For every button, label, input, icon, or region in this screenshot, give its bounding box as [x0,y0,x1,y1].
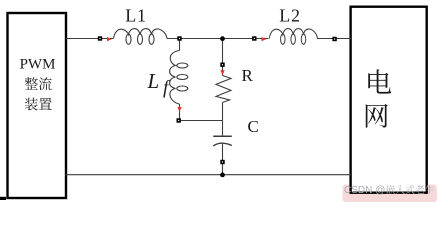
label 整流 [25,77,52,90]
inductor L2 [269,29,317,45]
inductor L1 [114,29,168,45]
wire C bottom [222,144,224,175]
svg-text:L1: L1 [125,6,147,26]
current arrow before L2 (right) [262,37,267,41]
capacitor C bottom plate [213,143,232,146]
node square L2 left [252,36,256,40]
svg-text:C: C [248,117,259,136]
node square C bottom [220,160,224,164]
svg-text:L2: L2 [279,6,301,26]
label 装置 [25,98,52,111]
current arrow R (down) [220,70,224,75]
wire R to C [222,102,224,135]
corner mark bottom-left [0,197,6,200]
wire Lf bottom to corner [179,104,181,121]
junction dot top RC tap [220,36,225,41]
node square L2 right [332,37,336,41]
node square PWM output [98,36,102,40]
wire top from PWM box to L1 [66,38,114,40]
grid box 电网 [351,7,427,193]
node square white centers [99,38,100,39]
junction dot bottom [220,173,225,178]
PWM converter box [8,13,67,198]
svg-text:R: R [242,66,254,85]
node square Lf tap [177,36,181,40]
wire bottom [66,174,351,176]
capacitor C top plate [213,135,232,137]
svg-text:PWM: PWM [20,57,56,73]
svg-text:L: L [147,69,160,93]
node square R top [220,63,224,67]
resistor R [216,76,231,103]
label 网 [366,104,388,128]
current arrow Lf (down) [177,107,181,112]
wire top middle L1 to L2 [167,38,269,40]
wire Lf vertical entry [179,39,181,51]
wire top right L2 to grid box [317,38,351,40]
label 电 [368,69,391,93]
wire Lf corner to RC branch [180,120,223,122]
watermark badge [343,185,437,203]
node square Lf bottom corner [177,118,181,122]
current arrow after PWM node (right) [107,37,112,41]
wire R branch top [222,39,224,76]
svg-text:CSDN @: CSDN @ [344,185,385,196]
inductor Lf [170,51,188,105]
